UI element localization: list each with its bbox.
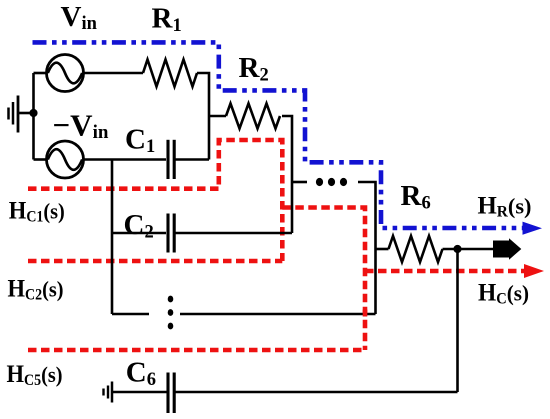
wire R2 branch bbox=[209, 115, 226, 118]
wire left vertical bbox=[32, 73, 35, 160]
wire lower ellipsis row bbox=[112, 313, 149, 316]
node junction dot (ground) bbox=[29, 109, 37, 117]
wire C2 branch bbox=[112, 232, 166, 235]
resistor R6 bbox=[389, 236, 443, 262]
black circuit bbox=[9, 55, 495, 414]
wire H_R(s) blue dash-dot trace bbox=[33, 42, 524, 228]
wire bbox=[443, 248, 495, 251]
wire R6 branch bbox=[376, 248, 389, 251]
ground bbox=[19, 112, 34, 115]
node ellipsis horizontal bbox=[316, 178, 323, 186]
capacitor C6 bbox=[166, 373, 169, 414]
node junction dot (output) bbox=[453, 245, 461, 253]
wire H_C2(s) red dashed trace bbox=[282, 208, 365, 351]
resistor R2 bbox=[226, 104, 280, 129]
ground C6 bbox=[113, 391, 167, 394]
capacitor C2 bbox=[166, 214, 169, 253]
source -Vin bbox=[47, 141, 84, 178]
wire H_C1(s) red dashed trace bbox=[28, 140, 525, 350]
wire middle vertical bbox=[111, 160, 114, 315]
wire ellipsis branch bbox=[292, 181, 307, 184]
wire bbox=[197, 73, 209, 160]
node output black arrow bbox=[493, 238, 521, 259]
wire bbox=[176, 232, 293, 235]
wire bbox=[176, 158, 210, 161]
wire bbox=[34, 158, 47, 161]
wire bbox=[282, 116, 292, 233]
resistor R1 bbox=[143, 60, 197, 87]
wire H_C(s) red dashed output line bbox=[365, 269, 525, 274]
node ellipsis vertical bbox=[168, 296, 174, 303]
node H_C(s) red arrowhead bbox=[524, 264, 544, 278]
node H_R(s) blue arrowhead bbox=[523, 222, 543, 235]
wire bbox=[176, 391, 458, 394]
capacitor C1 bbox=[166, 140, 169, 179]
wire bbox=[34, 72, 47, 75]
wire red dash over black at (365,314) bbox=[363, 310, 368, 317]
wire output vertical bbox=[456, 249, 459, 392]
source Vin bbox=[47, 55, 84, 92]
